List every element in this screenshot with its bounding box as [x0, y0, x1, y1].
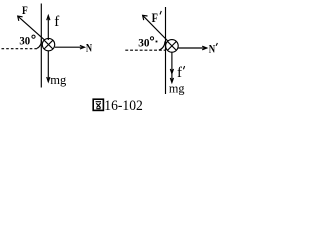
force mg arrow shaft [47, 51, 49, 82]
force F arrowhead [18, 16, 23, 21]
force N arrowhead [80, 45, 85, 49]
force F' arrowhead [143, 15, 148, 20]
right angle arc [159, 41, 165, 50]
prime of f' [183, 66, 184, 69]
right dashed horizontal line [125, 49, 165, 51]
svg-text:f: f [177, 65, 182, 81]
svg-text:30: 30 [19, 36, 30, 48]
prime of F' [160, 11, 161, 15]
left dashed horizontal line [2, 48, 39, 50]
force N' arrowhead [202, 46, 207, 50]
right ball circle [166, 40, 179, 53]
left ball X diagonal 2 [44, 40, 53, 49]
caption box glyph (tu character) [93, 99, 103, 110]
svg-text:F: F [152, 11, 159, 25]
force mg' arrow shaft [171, 74, 173, 83]
svg-text:N: N [86, 40, 92, 54]
right ball X diagonal 2 [167, 41, 176, 50]
force mg arrowhead [47, 77, 50, 82]
force f' arrow shaft [171, 52, 173, 73]
left degree mark [32, 35, 35, 38]
svg-text:f: f [54, 14, 59, 30]
force F arrow shaft [18, 16, 45, 40]
left ball X diagonal 1 [44, 40, 53, 49]
svg-text:mg: mg [50, 72, 66, 87]
svg-text:F: F [22, 3, 28, 17]
right ball X diagonal 1 [167, 41, 176, 50]
right degree mark [150, 37, 153, 40]
left angle arc [37, 39, 41, 48]
force f arrow shaft [47, 16, 49, 41]
force f arrowhead [47, 16, 50, 21]
prime of N' [216, 43, 217, 46]
svg-text:mg: mg [169, 81, 185, 96]
right rod (vertical line) [165, 7, 167, 94]
svg-text:N: N [209, 41, 216, 55]
small ink dot near right angle arc [156, 41, 158, 43]
svg-text:30: 30 [138, 38, 150, 50]
left rod (vertical line) [40, 4, 42, 88]
force N' arrow shaft [178, 47, 207, 49]
left ball circle [42, 38, 54, 50]
force f' arrowhead [170, 69, 173, 74]
force N arrow shaft [55, 46, 85, 48]
force mg' arrowhead [170, 78, 173, 83]
svg-text:16-102: 16-102 [104, 98, 143, 114]
force F' arrow shaft [143, 15, 168, 41]
